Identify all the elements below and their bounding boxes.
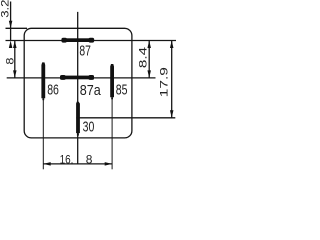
svg-text:87a: 87a xyxy=(80,82,102,99)
arrowhead 8.4 bottom (down) xyxy=(147,70,151,78)
svg-text:16.: 16. xyxy=(60,152,74,166)
relay bottom-view dimension drawing xyxy=(0,0,177,172)
extension line: pin 87 row xyxy=(6,40,177,42)
arrowhead 17.9 top (up) xyxy=(170,41,174,49)
svg-text:8: 8 xyxy=(86,152,93,166)
extension line: middle pin row (86/87a/85) xyxy=(7,77,156,79)
extension line: pin 30 row xyxy=(76,117,175,119)
terminal blade 86 (vertical) xyxy=(41,62,45,98)
terminal blade 85 (vertical) xyxy=(110,64,114,97)
svg-text:8: 8 xyxy=(4,58,16,65)
arrowhead 8.4 top (up) xyxy=(147,41,151,49)
arrowhead 17.9 bottom (down) xyxy=(170,110,174,118)
svg-text:17.9: 17.9 xyxy=(159,67,171,97)
arrowhead 3.2 bottom (up, below 87 row) xyxy=(9,41,13,49)
arrowhead 3.2 top (down) xyxy=(9,21,13,29)
centerline through 87/87a/30 xyxy=(77,12,79,164)
extension line: pin 86 column down xyxy=(42,98,44,169)
svg-text:85: 85 xyxy=(116,81,128,98)
terminal blade 30 (vertical) xyxy=(76,102,80,134)
arrowhead 16.8 left xyxy=(43,162,51,166)
dimension line 8.4 xyxy=(148,41,150,78)
arrowhead 8 bottom (down) xyxy=(13,70,16,78)
dimension line 17.9 xyxy=(171,41,173,118)
arrowhead 8 top (up) xyxy=(13,41,16,49)
relay body outline xyxy=(24,28,132,138)
dimension line 3.2 xyxy=(10,2,12,41)
dimension line 8 xyxy=(14,41,16,78)
extension line: body top edge, left xyxy=(6,27,28,29)
dimension line 16.8 xyxy=(43,163,112,165)
svg-text:30: 30 xyxy=(83,118,95,135)
terminal blade 87 (horizontal) xyxy=(62,38,93,42)
terminal blade 87a (horizontal) xyxy=(60,76,94,80)
extension line: pin 85 column down xyxy=(111,97,113,169)
svg-text:87: 87 xyxy=(79,43,91,60)
svg-text:3.2: 3.2 xyxy=(0,0,12,18)
svg-text:86: 86 xyxy=(47,81,59,98)
arrowhead 16.8 right xyxy=(105,162,113,166)
svg-text:8.4: 8.4 xyxy=(137,47,149,68)
